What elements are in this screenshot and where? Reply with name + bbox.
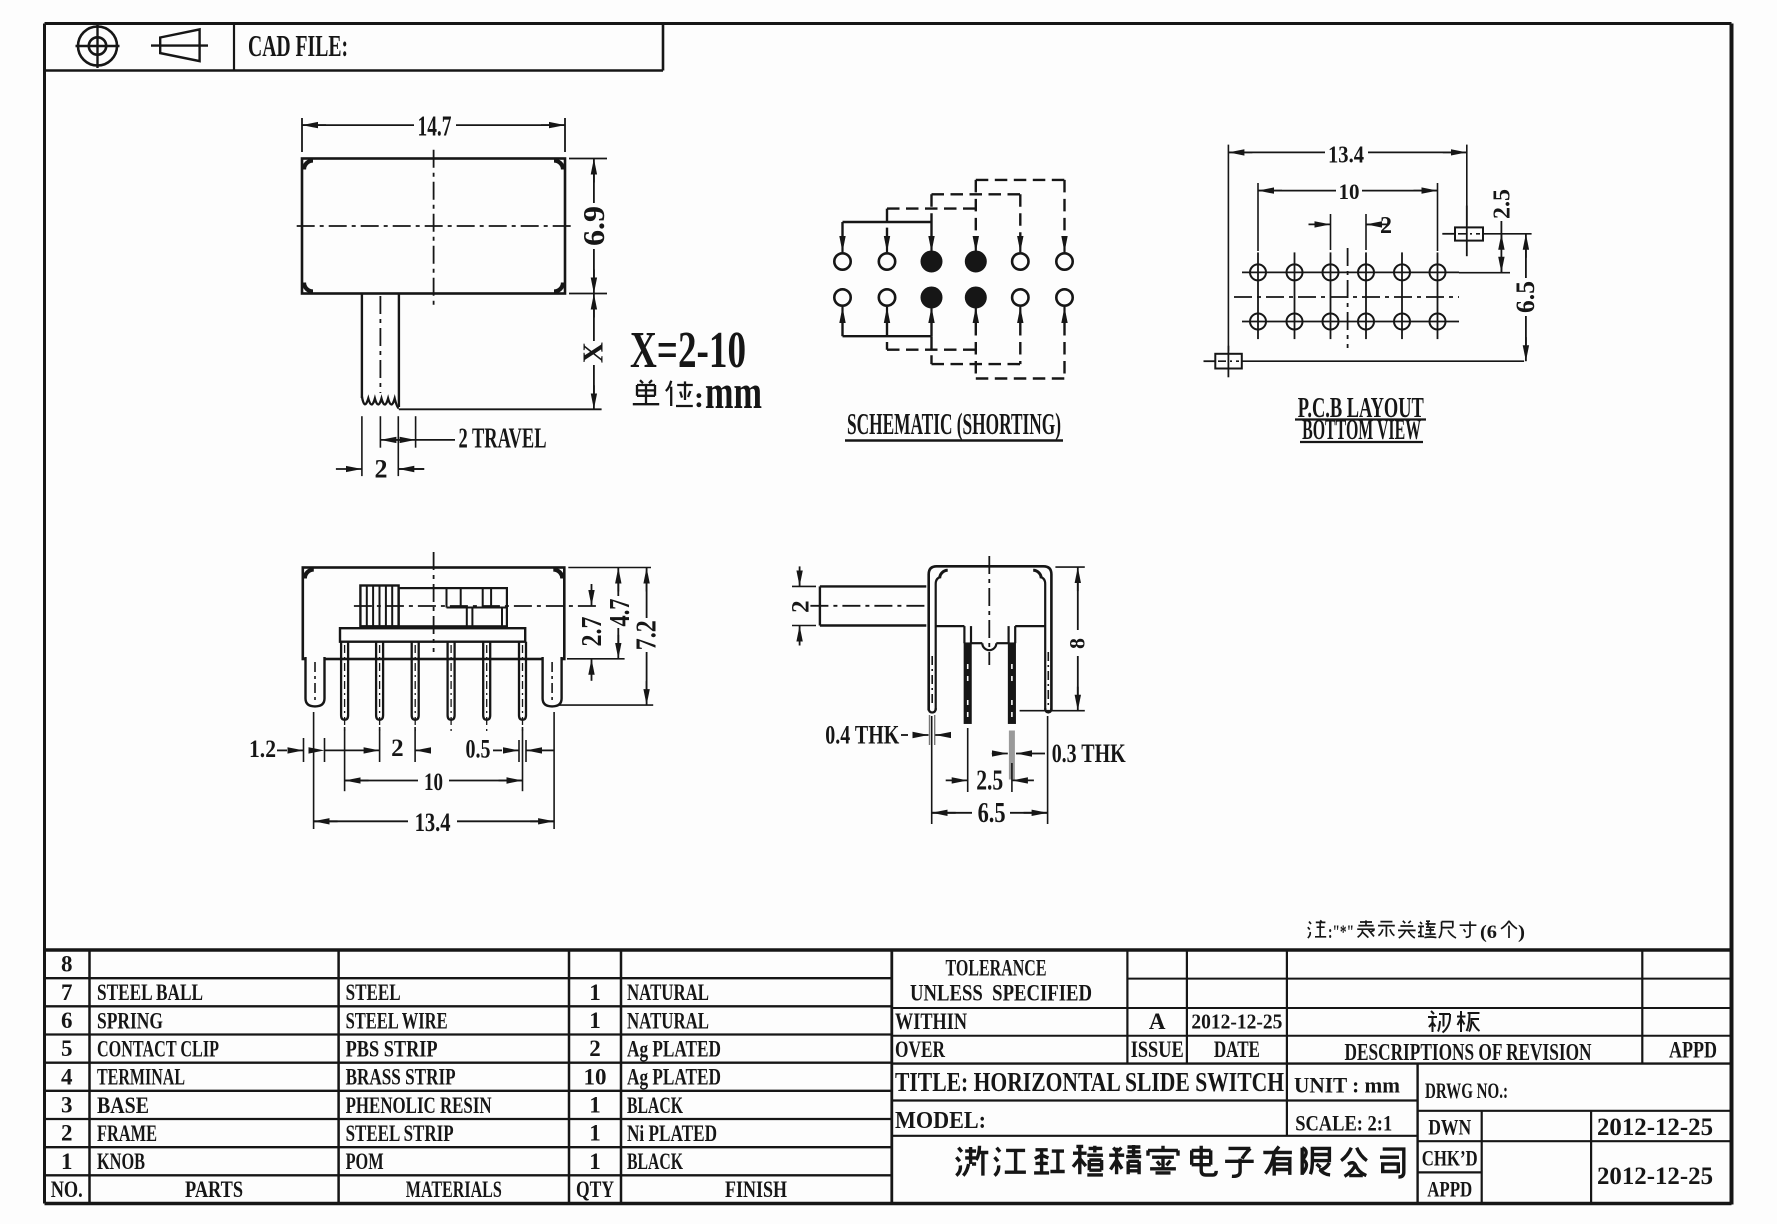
svg-text:2012-12-25: 2012-12-25 bbox=[1191, 1009, 1282, 1033]
svg-text:10: 10 bbox=[1339, 179, 1360, 204]
svg-text:): ) bbox=[1518, 922, 1525, 943]
svg-text:2: 2 bbox=[589, 1036, 601, 1061]
svg-text:QTY: QTY bbox=[576, 1177, 614, 1202]
svg-text:WITHIN: WITHIN bbox=[895, 1009, 967, 1034]
svg-text:UNIT : mm: UNIT : mm bbox=[1294, 1072, 1400, 1097]
svg-text:BLACK: BLACK bbox=[627, 1149, 683, 1174]
svg-text:1.2: 1.2 bbox=[249, 736, 276, 763]
svg-text:10: 10 bbox=[584, 1064, 607, 1089]
svg-text:2: 2 bbox=[375, 455, 388, 484]
svg-text:0.5: 0.5 bbox=[466, 735, 491, 764]
svg-text:UNLESS SPECIFIED: UNLESS SPECIFIED bbox=[910, 981, 1092, 1006]
svg-text:0.4 THK: 0.4 THK bbox=[825, 721, 900, 750]
svg-text:13.4: 13.4 bbox=[1328, 142, 1364, 168]
svg-text:4: 4 bbox=[61, 1064, 73, 1089]
svg-text::: : bbox=[694, 381, 704, 414]
svg-text:APPD: APPD bbox=[1427, 1176, 1472, 1201]
svg-text:3: 3 bbox=[61, 1093, 73, 1118]
svg-text:SCALE: 2:1: SCALE: 2:1 bbox=[1295, 1110, 1392, 1135]
svg-text:MODEL:: MODEL: bbox=[895, 1108, 986, 1134]
svg-text:0.3 THK: 0.3 THK bbox=[1052, 739, 1127, 768]
svg-text:NATURAL: NATURAL bbox=[627, 1008, 709, 1033]
svg-text:1: 1 bbox=[589, 980, 601, 1005]
svg-text:CHK’D: CHK’D bbox=[1422, 1145, 1478, 1170]
svg-text:DESCRIPTIONS OF REVISION: DESCRIPTIONS OF REVISION bbox=[1345, 1040, 1592, 1066]
svg-text:2 TRAVEL: 2 TRAVEL bbox=[459, 423, 547, 455]
svg-text:mm: mm bbox=[705, 366, 762, 419]
svg-text:SPRING: SPRING bbox=[97, 1008, 163, 1033]
svg-text:TERMINAL: TERMINAL bbox=[97, 1065, 185, 1090]
svg-text:5: 5 bbox=[61, 1036, 73, 1061]
svg-text:6.5: 6.5 bbox=[978, 798, 1006, 829]
svg-text:Ag PLATED: Ag PLATED bbox=[627, 1065, 721, 1090]
svg-text:7.2: 7.2 bbox=[632, 620, 663, 650]
svg-text:POM: POM bbox=[346, 1149, 384, 1174]
svg-text:1: 1 bbox=[589, 1008, 601, 1033]
svg-text:2.5: 2.5 bbox=[1489, 189, 1515, 219]
svg-text:ISSUE: ISSUE bbox=[1131, 1037, 1184, 1062]
svg-text:1: 1 bbox=[589, 1149, 601, 1174]
svg-text:BASE: BASE bbox=[97, 1093, 149, 1118]
svg-text:2.7: 2.7 bbox=[577, 617, 608, 647]
svg-text:NO.: NO. bbox=[51, 1177, 83, 1202]
svg-text:BLACK: BLACK bbox=[627, 1093, 683, 1118]
svg-text:TOLERANCE: TOLERANCE bbox=[946, 955, 1047, 980]
svg-text:STEEL WIRE: STEEL WIRE bbox=[346, 1008, 448, 1033]
svg-text:6.9: 6.9 bbox=[576, 206, 611, 246]
svg-text:2012-12-25: 2012-12-25 bbox=[1597, 1114, 1713, 1141]
svg-text:SCHEMATIC (SHORTING): SCHEMATIC (SHORTING) bbox=[847, 406, 1061, 441]
svg-text:2: 2 bbox=[61, 1121, 73, 1146]
svg-text:14.7: 14.7 bbox=[418, 111, 452, 143]
svg-text:2012-12-25: 2012-12-25 bbox=[1597, 1163, 1713, 1190]
svg-text:Ni PLATED: Ni PLATED bbox=[627, 1121, 717, 1146]
svg-text:1: 1 bbox=[589, 1093, 601, 1118]
svg-text:2: 2 bbox=[1380, 213, 1392, 239]
svg-text:FRAME: FRAME bbox=[97, 1121, 157, 1146]
svg-text:PHENOLIC RESIN: PHENOLIC RESIN bbox=[346, 1093, 492, 1118]
svg-text:CONTACT CLIP: CONTACT CLIP bbox=[97, 1037, 219, 1062]
svg-text:7: 7 bbox=[61, 980, 73, 1005]
svg-text:TITLE: HORIZONTAL SLIDE SWITCH: TITLE: HORIZONTAL SLIDE SWITCH bbox=[895, 1067, 1284, 1097]
svg-text:NATURAL: NATURAL bbox=[627, 980, 709, 1005]
svg-text:8: 8 bbox=[61, 952, 73, 977]
svg-text:1: 1 bbox=[61, 1149, 73, 1174]
svg-text:FINISH: FINISH bbox=[725, 1177, 787, 1202]
svg-text:6: 6 bbox=[61, 1008, 73, 1033]
svg-text:2: 2 bbox=[391, 735, 404, 762]
svg-text:13.4: 13.4 bbox=[415, 808, 451, 837]
svg-text:2: 2 bbox=[788, 600, 815, 613]
svg-text:CAD FILE:: CAD FILE: bbox=[248, 28, 348, 63]
svg-text:PBS STRIP: PBS STRIP bbox=[346, 1037, 438, 1062]
svg-text:STEEL: STEEL bbox=[346, 980, 401, 1005]
svg-text:BRASS STRIP: BRASS STRIP bbox=[346, 1065, 456, 1090]
svg-text:OVER: OVER bbox=[895, 1037, 945, 1062]
svg-text:X: X bbox=[578, 342, 610, 363]
svg-text:(6: (6 bbox=[1480, 922, 1497, 943]
svg-text:Ag PLATED: Ag PLATED bbox=[627, 1037, 721, 1062]
svg-text:PARTS: PARTS bbox=[185, 1177, 243, 1202]
svg-text:DWN: DWN bbox=[1428, 1114, 1471, 1139]
svg-text:8: 8 bbox=[1065, 638, 1090, 649]
svg-text:1: 1 bbox=[589, 1121, 601, 1146]
svg-text:A: A bbox=[1149, 1009, 1166, 1034]
svg-text:6.5: 6.5 bbox=[1511, 281, 1540, 313]
svg-text:2.5: 2.5 bbox=[976, 766, 1003, 797]
svg-text:STEEL STRIP: STEEL STRIP bbox=[346, 1121, 454, 1146]
svg-text:DATE: DATE bbox=[1214, 1037, 1260, 1062]
svg-text::"*": :"*" bbox=[1328, 922, 1354, 943]
svg-text:APPD: APPD bbox=[1669, 1038, 1717, 1063]
svg-text:MATERIALS: MATERIALS bbox=[406, 1177, 502, 1202]
svg-text:KNOB: KNOB bbox=[97, 1149, 145, 1174]
svg-text:STEEL BALL: STEEL BALL bbox=[97, 980, 203, 1005]
svg-text:10: 10 bbox=[424, 769, 443, 796]
svg-text:DRWG NO.:: DRWG NO.: bbox=[1425, 1078, 1508, 1103]
